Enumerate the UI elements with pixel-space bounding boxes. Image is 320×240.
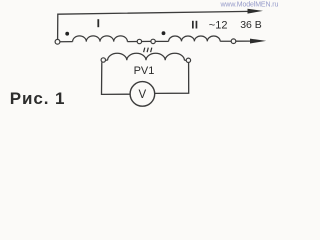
polarity dot winding II xyxy=(162,31,166,35)
arrowhead top lead xyxy=(248,9,264,14)
svg-text:~12: ~12 xyxy=(209,20,228,32)
label III (marks) xyxy=(144,48,152,53)
arrowhead output lead xyxy=(250,39,266,44)
wire E to winding III xyxy=(106,59,108,61)
terminal F (winding III right) xyxy=(186,58,190,62)
terminal A xyxy=(55,39,60,44)
wire right leg to voltmeter xyxy=(155,63,189,94)
wire C to winding II xyxy=(155,40,168,42)
voltmeter PV1 xyxy=(130,82,155,107)
label I xyxy=(97,19,99,27)
wire left leg to voltmeter xyxy=(102,62,131,94)
wire winding II to terminal D xyxy=(220,40,231,42)
polarity dot winding I xyxy=(65,32,69,36)
winding III xyxy=(108,53,185,60)
svg-text:V: V xyxy=(139,89,147,101)
svg-text:36 В: 36 В xyxy=(240,19,262,31)
svg-text:Рис. 1: Рис. 1 xyxy=(10,89,66,108)
winding I xyxy=(73,36,128,42)
wire B to C xyxy=(142,40,151,42)
terminal C xyxy=(151,39,155,43)
svg-text:www.ModelMEN.ru: www.ModelMEN.ru xyxy=(220,1,279,8)
terminal E (winding III left) xyxy=(101,58,105,62)
svg-text:PV1: PV1 xyxy=(134,65,155,77)
wire top lead with left vertical drop xyxy=(58,11,250,39)
winding II xyxy=(169,36,221,41)
label II xyxy=(192,21,197,29)
terminal D xyxy=(231,39,236,44)
wire D to output arrow xyxy=(236,40,251,42)
wire winding III to terminal F xyxy=(184,59,186,61)
wire winding I to terminal B xyxy=(127,41,137,43)
wire A to winding I xyxy=(60,41,73,43)
terminal B xyxy=(137,39,141,43)
